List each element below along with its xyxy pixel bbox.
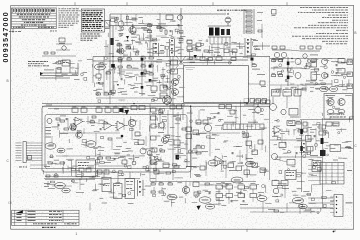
- svg-text:B: B: [354, 31, 356, 35]
- svg-text:0093547000: 0093547000: [3, 11, 10, 62]
- svg-text:1: 1: [75, 232, 77, 236]
- svg-text:B: B: [7, 79, 9, 83]
